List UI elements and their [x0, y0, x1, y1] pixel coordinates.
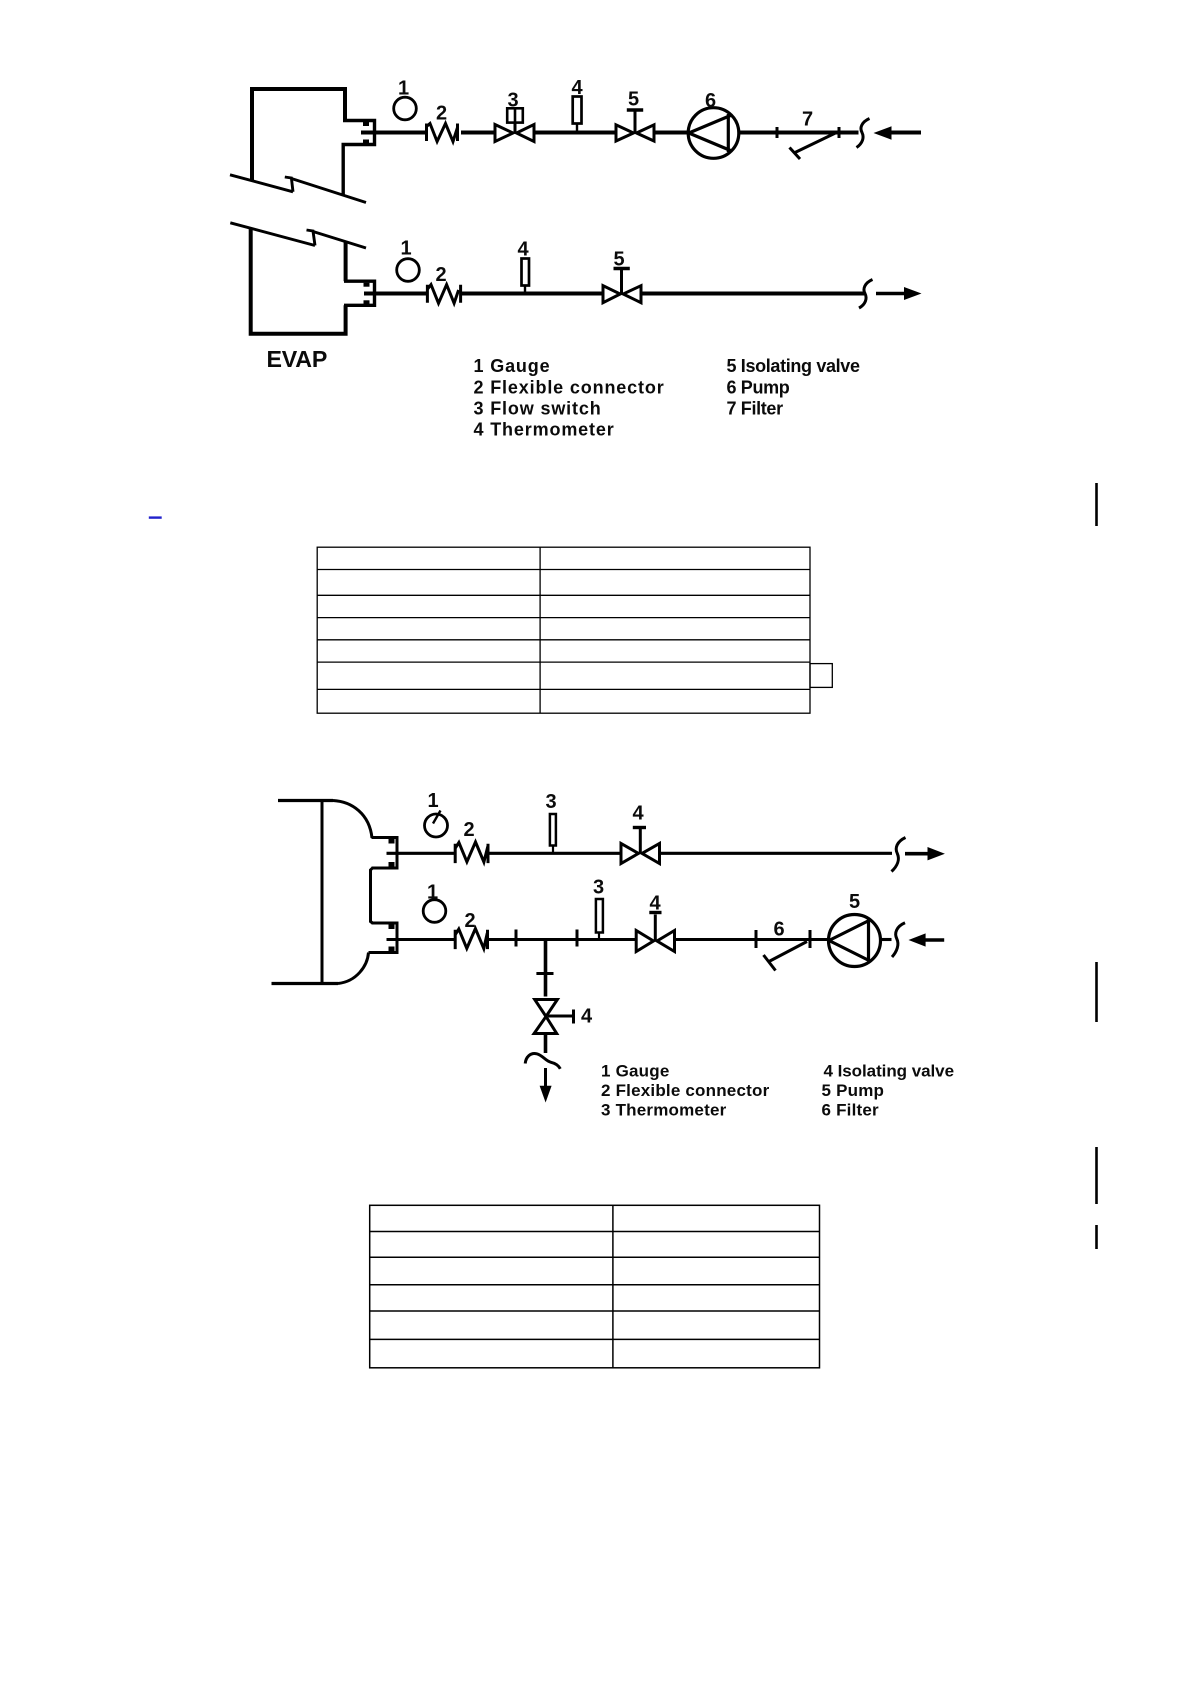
wire: top pipe tail after arrow — [891, 131, 921, 135]
legend 2 column 1 — [601, 1061, 770, 1119]
svg-text:5 Isolating valve: 5 Isolating valve — [727, 356, 860, 376]
flow arrow (top pipe, pointing left) — [874, 126, 892, 139]
gauge 1 (bottom pipe) — [397, 259, 420, 282]
right margin mark 2 — [1095, 962, 1098, 1022]
drain valve handle end tick — [572, 1010, 575, 1024]
right margin mark 1 — [1095, 483, 1098, 526]
right margin mark 4 — [1095, 1225, 1098, 1249]
blue hyperlink dash (left margin) — [149, 516, 162, 518]
wire: d2 top pipe segments (y=853.3) — [387, 852, 893, 855]
gauge 1 (top pipe) — [394, 97, 417, 120]
vessel head flat side (tube sheet) — [321, 799, 324, 984]
svg-text:4 Thermometer: 4 Thermometer — [474, 420, 615, 440]
vessel lower nozzle — [369, 923, 398, 953]
gauge 1 (d2 top pipe) — [425, 814, 448, 837]
break line upper (vessel break) — [230, 175, 366, 203]
wire joint tick before filter (d2) — [755, 930, 758, 948]
wire joint tick after pump — [776, 127, 779, 138]
wire joint tick after filter (d2) — [809, 930, 812, 948]
drain valve handle line — [548, 1015, 573, 1018]
wire: drain branch vertical — [544, 940, 548, 997]
svg-text:4: 4 — [581, 1006, 593, 1028]
drain valve 4 (vertical bowtie) — [534, 1000, 557, 1034]
flexible connector 2 (bottom pipe) — [427, 285, 460, 304]
flow arrow (drain, pointing down) — [540, 1086, 552, 1103]
svg-text:5 Pump: 5 Pump — [822, 1081, 885, 1100]
svg-text:2 Flexible connector: 2 Flexible connector — [474, 377, 665, 397]
wire: bottom return pipe segments (y=293.5) — [364, 292, 864, 296]
wire joint tick 1 (d2 bottom pipe) — [515, 930, 518, 947]
svg-text:3 Thermometer: 3 Thermometer — [601, 1101, 727, 1120]
gauge needle (d2 top gauge) — [433, 811, 441, 824]
thermometer 3 (d2 bottom pipe) — [596, 899, 603, 940]
EVAP vessel lower outlet nozzle — [344, 281, 375, 305]
flow arrow (d2 top pipe, pointing right) — [928, 847, 945, 860]
svg-text:1: 1 — [398, 78, 409, 100]
svg-text:4: 4 — [633, 803, 645, 825]
svg-text:4: 4 — [572, 77, 584, 99]
wire: top supply pipe segments (y=132.5) — [361, 131, 859, 135]
svg-text:6: 6 — [705, 90, 716, 112]
table 2 row lines — [370, 1231, 820, 1233]
svg-text:2 Flexible connector: 2 Flexible connector — [601, 1081, 770, 1100]
svg-text:EVAP: EVAP — [267, 346, 328, 372]
wire joint tick at filter — [838, 127, 841, 138]
table 1 row lines — [317, 569, 810, 571]
svg-text:3: 3 — [546, 791, 557, 813]
svg-text:1: 1 — [427, 882, 438, 904]
pipe break symbol (drain, horizontal S) — [525, 1053, 560, 1068]
vessel upper nozzle — [371, 838, 398, 924]
wire: drain tail — [544, 1068, 547, 1086]
svg-text:3 Flow switch: 3 Flow switch — [474, 398, 602, 418]
svg-text:2: 2 — [436, 103, 447, 125]
svg-text:7: 7 — [802, 109, 813, 131]
filter 7 — [790, 133, 837, 160]
right margin mark 3 — [1095, 1147, 1098, 1204]
svg-text:3: 3 — [593, 877, 604, 899]
pump 6 — [688, 108, 739, 159]
pipe break symbol (bottom pipe) — [859, 280, 873, 309]
svg-text:6 Pump: 6 Pump — [727, 377, 790, 397]
pipe break symbol (top pipe) — [857, 119, 870, 148]
wire: d2 top pipe tail — [905, 852, 929, 856]
flow arrow (d2 bottom pipe, pointing left) — [909, 933, 926, 946]
vessel head upper arc — [333, 801, 372, 839]
svg-text:5: 5 — [614, 249, 625, 271]
svg-text:5: 5 — [628, 89, 639, 111]
branch joint tick — [536, 972, 553, 975]
legend 2 column 2 — [822, 1061, 955, 1119]
pipe break symbol (d2 bottom pipe) — [892, 923, 905, 957]
vessel head top shell line — [278, 799, 333, 802]
flow arrow (bottom pipe, pointing right) — [904, 287, 922, 300]
pipe break symbol (d2 top pipe) — [892, 838, 906, 872]
EVAP vessel lower section outline — [251, 228, 346, 334]
pump 5 (d2) — [829, 915, 881, 967]
thermometer 3 (d2 top pipe) — [550, 814, 556, 853]
filter 6 (d2) — [764, 942, 808, 971]
EVAP vessel upper outlet nozzle — [343, 121, 375, 195]
isolating valve 4 (d2 bottom pipe) — [636, 913, 674, 952]
svg-text:1 Gauge: 1 Gauge — [601, 1061, 669, 1080]
break line lower (vessel break) — [230, 223, 366, 248]
isolating valve 4 (d2 top pipe) — [621, 828, 660, 864]
wire joint tick 2 (d2 bottom pipe) — [576, 930, 579, 947]
flow switch 3 — [495, 108, 534, 141]
svg-text:6: 6 — [774, 919, 785, 941]
wire: bottom pipe tail — [876, 292, 906, 296]
wire: drain stem below valve — [544, 1034, 548, 1054]
table 1 outer border — [317, 547, 832, 713]
legend 1 column 1 — [474, 356, 665, 440]
svg-text:3: 3 — [508, 90, 519, 112]
vessel head bottom shell line — [272, 982, 339, 985]
svg-text:1: 1 — [401, 238, 412, 260]
flexible connector 2 (d2 bottom pipe) — [455, 929, 487, 950]
svg-text:4 Isolating valve: 4 Isolating valve — [824, 1061, 955, 1080]
svg-text:5: 5 — [849, 891, 860, 913]
table 1 column divider — [539, 547, 541, 713]
svg-text:4: 4 — [518, 239, 530, 261]
svg-text:2: 2 — [464, 819, 475, 841]
table 1 side appendage cell — [810, 664, 832, 688]
table 2 outer border — [370, 1205, 820, 1368]
svg-text:2: 2 — [465, 910, 476, 932]
thermometer 4 (bottom pipe) — [522, 259, 530, 294]
gauge 1 (d2 bottom pipe) — [423, 900, 446, 923]
table 2 column divider — [612, 1205, 614, 1368]
isolating valve 5 (bottom pipe) — [603, 269, 641, 303]
EVAP vessel upper section outline — [252, 89, 345, 181]
svg-text:7 Filter: 7 Filter — [727, 398, 784, 418]
svg-text:1: 1 — [428, 790, 439, 812]
wire: d2 bottom pipe segments (y=939.5) — [387, 938, 892, 941]
svg-text:4: 4 — [650, 893, 662, 915]
svg-text:2: 2 — [436, 264, 447, 286]
flexible connector 2 (d2 top pipe) — [455, 842, 488, 863]
isolating valve 5 (top pipe) — [616, 110, 654, 141]
svg-text:1 Gauge: 1 Gauge — [474, 356, 551, 376]
vessel head lower arc — [338, 953, 369, 984]
legend 1 column 2 — [727, 356, 860, 418]
svg-text:6 Filter: 6 Filter — [822, 1101, 880, 1120]
wire: d2 bottom pipe tail — [925, 938, 944, 942]
flexible connector 2 (top pipe) — [427, 124, 458, 142]
thermometer 4 (top pipe) — [573, 97, 582, 133]
